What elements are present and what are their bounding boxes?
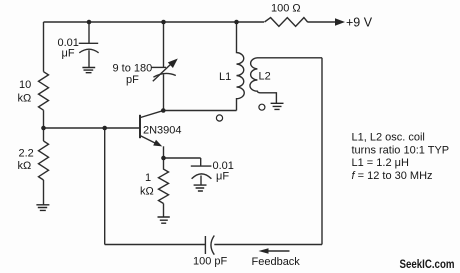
+9V arrowhead — [335, 18, 345, 25]
resistor 1k — [159, 158, 169, 204]
resistor 2.2k — [39, 141, 49, 180]
wire 2.2k to ground — [43, 180, 45, 204]
wire feedback vertical — [104, 128, 106, 245]
svg-text:+9 V: +9 V — [346, 16, 373, 30]
transistor Q1 emitter line — [141, 136, 159, 145]
ground below C1 — [82, 68, 95, 73]
svg-text:9 to 180: 9 to 180 — [113, 63, 153, 75]
svg-text:10: 10 — [19, 79, 31, 91]
svg-text:kΩ: kΩ — [140, 185, 154, 197]
transistor Q1 base bar — [139, 115, 141, 138]
ground L2 — [271, 103, 284, 109]
node dot divider — [41, 126, 46, 131]
node dot feedback — [102, 126, 107, 131]
capacitor C2 curved plate — [192, 174, 212, 179]
wire left rail top — [43, 22, 45, 72]
svg-text:L1 = 1.2 μH: L1 = 1.2 μH — [352, 157, 409, 169]
capacitor C1 0.01uF lead — [88, 22, 90, 43]
resistor 10k — [39, 72, 49, 111]
inductor L1 — [237, 22, 245, 111]
wire emitter to cap — [164, 157, 201, 159]
ground below C2 — [194, 185, 207, 191]
capacitor C1 lower lead — [88, 50, 90, 67]
svg-text:pF: pF — [126, 74, 139, 86]
capacitor C3 100pF left plate — [204, 236, 206, 254]
capacitor C2 lower lead — [200, 176, 202, 185]
feedback arrow shaft — [266, 250, 290, 252]
svg-text:L1, L2 osc. coil: L1, L2 osc. coil — [352, 132, 425, 144]
variable capacitor curved plate — [153, 73, 175, 77]
svg-text:100 pF: 100 pF — [193, 256, 228, 268]
wire var-cap bottom — [163, 74, 165, 110]
wire right vertical — [321, 58, 323, 245]
svg-text:SeekIC.com: SeekIC.com — [400, 257, 455, 271]
wire 1k to ground — [163, 204, 165, 217]
svg-text:Feedback: Feedback — [252, 256, 301, 268]
svg-text:100 Ω: 100 Ω — [271, 3, 301, 15]
svg-text:kΩ: kΩ — [18, 92, 32, 104]
variable capacitor arrow shaft — [153, 64, 172, 82]
svg-text:f = 12 to 30 MHz: f = 12 to 30 MHz — [352, 170, 433, 182]
node phasing circle L1 — [216, 115, 222, 121]
wire var-cap top — [163, 22, 165, 67]
node phasing circle L2 — [259, 104, 265, 110]
wire top rail — [44, 21, 265, 23]
node dot collector — [161, 108, 166, 113]
svg-text:2N3904: 2N3904 — [143, 124, 182, 136]
emitter arrowhead — [153, 140, 162, 147]
capacitor C2 top plate — [191, 165, 212, 167]
svg-text:L1: L1 — [219, 71, 231, 83]
svg-text:turns ratio 10:1 TYP: turns ratio 10:1 TYP — [352, 145, 450, 157]
ground below 2.2k — [36, 205, 49, 211]
svg-text:μF: μF — [62, 47, 75, 59]
svg-text:2.2: 2.2 — [19, 148, 34, 160]
wire collector to L1 — [164, 110, 237, 112]
capacitor C3 100pF curved plate — [211, 236, 214, 255]
ground below 1k — [158, 217, 170, 223]
capacitor C2 0.01uF lead — [200, 158, 202, 166]
wire bottom right — [214, 244, 322, 246]
wire bottom left — [105, 244, 206, 246]
node dot L1 top — [234, 20, 239, 25]
wire to +9V — [308, 21, 337, 23]
capacitor C1 curved plate — [79, 49, 98, 53]
feedback arrowhead — [259, 248, 269, 254]
varcap arrowhead — [168, 59, 178, 69]
node dot varcap top — [161, 20, 166, 25]
node dot emitter — [161, 156, 166, 161]
capacitor C1 top plate — [79, 42, 98, 44]
svg-text:L2: L2 — [259, 70, 271, 82]
svg-text:kΩ: kΩ — [18, 160, 32, 172]
resistor 100 ohm — [265, 18, 308, 27]
svg-text:1: 1 — [145, 172, 151, 184]
inductor L2 — [250, 58, 322, 103]
transistor Q1 collector line — [141, 111, 164, 118]
wire 10k to junction — [43, 110, 45, 141]
variable capacitor plate — [152, 66, 167, 68]
svg-text:μF: μF — [216, 170, 229, 182]
wire emitter vertical — [163, 146, 165, 158]
node dot C1 top — [87, 20, 92, 25]
wire base — [44, 127, 141, 129]
